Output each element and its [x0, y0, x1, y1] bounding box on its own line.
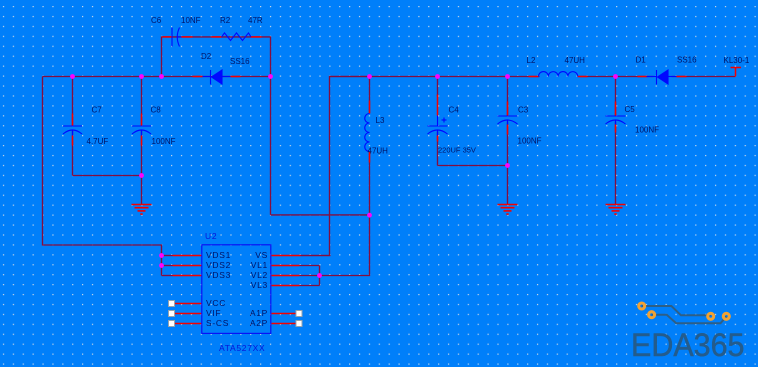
- wire L3 column top: [369, 77, 371, 114]
- svg-text:VL3: VL3: [251, 280, 268, 290]
- svg-text:47UH: 47UH: [368, 147, 389, 156]
- pin S-CS: [175, 323, 202, 325]
- pin R2 left: [212, 36, 222, 38]
- svg-text:U2: U2: [205, 231, 217, 241]
- svg-text:R2: R2: [220, 16, 231, 25]
- wire VL3 stub: [300, 285, 320, 287]
- inductor L3: [365, 114, 370, 152]
- wire C5 column bottom to ground: [615, 122, 617, 205]
- pin L2 left: [529, 76, 539, 78]
- capacitor C6: [172, 28, 182, 47]
- ground G1: [132, 205, 152, 215]
- svg-text:A2P: A2P: [250, 318, 268, 328]
- node A2P square: [296, 321, 302, 327]
- capacitor C8: [132, 126, 151, 136]
- node C4 top: [435, 74, 440, 79]
- wire right rail segment 3: [672, 76, 736, 78]
- pin L2 right: [578, 76, 588, 78]
- pin VL1: [272, 265, 300, 267]
- logo traces: [642, 306, 727, 323]
- pin C4 top: [437, 95, 439, 116]
- pin C8 top: [141, 114, 143, 126]
- svg-text:C6: C6: [151, 16, 162, 25]
- wire right rail segment 1: [330, 76, 540, 78]
- capacitor C5: [606, 116, 626, 125]
- wire C4 to C3 bottom link: [438, 165, 508, 167]
- svg-text:VCC: VCC: [206, 298, 226, 308]
- pin C5 bottom: [615, 125, 617, 133]
- svg-text:100NF: 100NF: [518, 137, 542, 146]
- wire C4 column top: [437, 77, 439, 97]
- node A1P square: [296, 311, 302, 317]
- svg-text:C3: C3: [518, 106, 529, 115]
- svg-text:C4: C4: [449, 106, 460, 115]
- pin VIF: [175, 313, 202, 315]
- svg-text:A1P: A1P: [250, 308, 268, 318]
- wire C8 column top: [141, 77, 143, 126]
- capacitor C7: [63, 126, 82, 136]
- svg-text:L2: L2: [527, 56, 536, 65]
- wire C3 column bottom to ground: [507, 122, 509, 205]
- pin D2 left: [193, 76, 203, 78]
- diode D2: [203, 70, 231, 85]
- wire y215 horizontal to L3 bottom: [271, 214, 370, 216]
- node C7 top: [70, 74, 75, 79]
- svg-text:L3: L3: [376, 116, 385, 125]
- svg-text:VIF: VIF: [206, 308, 221, 318]
- pin L3 bottom: [369, 152, 371, 163]
- node D2 out: [268, 74, 273, 79]
- wire VS to rail: [301, 77, 370, 256]
- svg-text:EDA365: EDA365: [631, 327, 745, 363]
- node VCC square: [169, 301, 175, 307]
- node C5 top: [613, 74, 618, 79]
- wire VL2 stub: [300, 275, 320, 277]
- node snubber left: [159, 74, 164, 79]
- wire VL1-VL3 tie vertical: [319, 266, 321, 286]
- wire VDS3 stub: [162, 275, 173, 277]
- svg-text:D2: D2: [201, 52, 212, 61]
- svg-text:47R: 47R: [248, 16, 263, 25]
- node C8 top: [139, 74, 144, 79]
- inductor L2: [539, 72, 578, 77]
- svg-text:KL30-1: KL30-1: [724, 56, 750, 65]
- svg-text:D1: D1: [636, 56, 647, 65]
- pin D1 left: [638, 76, 648, 78]
- wire C5 column top: [615, 77, 617, 116]
- svg-text:10NF: 10NF: [181, 16, 201, 25]
- resistor R2: [222, 33, 252, 41]
- node VDS1: [159, 253, 164, 258]
- wire C7 column bottom: [72, 131, 74, 176]
- svg-text:100NF: 100NF: [635, 126, 659, 135]
- pin L3 top: [369, 101, 371, 114]
- pin VDS1: [173, 255, 202, 257]
- svg-text:S-CS: S-CS: [206, 318, 229, 328]
- pin C5 top: [615, 102, 617, 116]
- pin VL3: [272, 285, 300, 287]
- node L3 top: [367, 74, 372, 79]
- node KL30-1 port: [731, 68, 742, 77]
- wire left rail y=76: [43, 76, 271, 78]
- svg-text:C7: C7: [92, 106, 103, 115]
- wire snubber loop left and top and right: [162, 37, 271, 77]
- wire C8 column bottom: [141, 131, 143, 176]
- wire C3 column top: [507, 77, 509, 116]
- wire VS stub: [301, 255, 331, 257]
- svg-text:220UF 35V: 220UF 35V: [438, 146, 476, 155]
- pin VDS3: [173, 275, 202, 277]
- pin D2 right: [231, 76, 241, 78]
- wire L3 column bottom: [369, 152, 371, 215]
- ground G2: [498, 205, 518, 215]
- node S-CS square: [169, 321, 175, 327]
- wire VDS2 stub: [162, 265, 173, 267]
- pin D1 right: [677, 76, 687, 78]
- svg-text:VS: VS: [255, 250, 268, 260]
- svg-text:ATA527XX: ATA527XX: [219, 343, 265, 353]
- node C8 bottom: [139, 173, 144, 178]
- pin C7 bottom: [72, 136, 74, 146]
- diode D1: [647, 70, 677, 85]
- svg-text:47UH: 47UH: [565, 56, 586, 65]
- pin C6 right: [182, 36, 193, 38]
- svg-text:100NF: 100NF: [152, 137, 176, 146]
- node L3 bottom: [367, 213, 372, 218]
- svg-text:VL1: VL1: [251, 260, 268, 270]
- capacitor C3: [498, 116, 518, 125]
- pin VL2: [272, 275, 300, 277]
- pin C6 left: [163, 36, 172, 38]
- node VL2: [317, 273, 322, 278]
- svg-text:4.7UF: 4.7UF: [87, 137, 109, 146]
- ground G3: [606, 205, 626, 215]
- capacitor C4: [428, 116, 448, 136]
- svg-text:VDS1: VDS1: [206, 250, 231, 260]
- svg-text:C8: C8: [151, 106, 162, 115]
- pin C8 bottom: [141, 136, 143, 146]
- pin C4 bottom: [437, 136, 439, 142]
- svg-text:VL2: VL2: [251, 270, 268, 280]
- node C3 top: [505, 74, 510, 79]
- pin C3 bottom: [507, 125, 509, 135]
- node VDS2: [159, 263, 164, 268]
- svg-text:VDS3: VDS3: [206, 270, 231, 280]
- wire C7 column top: [72, 77, 74, 126]
- wire C7-C8 bottom link: [73, 175, 142, 177]
- svg-text:VDS2: VDS2: [206, 260, 231, 270]
- pin A1P: [272, 313, 297, 315]
- wire VDS1 stub: [162, 255, 173, 257]
- IC U2: [202, 245, 271, 334]
- wire VL1 stub: [300, 265, 320, 267]
- pin A2P: [272, 323, 297, 325]
- wire right rail segment 2: [579, 76, 654, 78]
- pin VCC: [175, 303, 202, 305]
- logo pads: [639, 303, 730, 319]
- wire left drop from rail to U2 VDS pins: [43, 77, 162, 276]
- wire C4 column bottom: [437, 132, 439, 166]
- pin C7 top: [72, 114, 74, 126]
- svg-text:SS16: SS16: [230, 57, 250, 66]
- pin VDS2: [173, 265, 202, 267]
- wire L3 bottom down to VL2 row: [320, 215, 370, 276]
- node C3 mid: [505, 163, 510, 168]
- pin VS: [272, 255, 301, 257]
- pin C3 top: [507, 102, 509, 116]
- svg-text:SS16: SS16: [677, 56, 697, 65]
- node VIF square: [169, 311, 175, 317]
- pin R2 right: [251, 36, 262, 38]
- wire C8 to ground: [141, 176, 143, 205]
- wire D2 node down: [270, 77, 272, 215]
- svg-text:C5: C5: [625, 105, 636, 114]
